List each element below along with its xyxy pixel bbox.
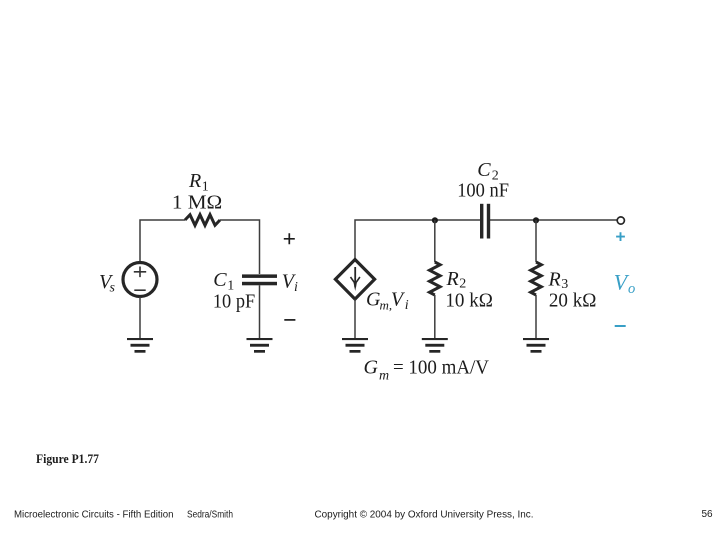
svg-text:10 kΩ: 10 kΩ <box>445 289 493 311</box>
label Vs <box>99 271 116 295</box>
label C1 <box>213 269 234 294</box>
output terminal (open circle) <box>617 217 624 224</box>
svg-text:Sedra/Smith: Sedra/Smith <box>187 510 233 521</box>
svg-text:m: m <box>379 369 389 384</box>
value label 20 kOhm <box>549 289 597 311</box>
svg-text:i: i <box>405 298 409 313</box>
ground below dependent source <box>342 338 368 353</box>
label R3 <box>548 268 569 292</box>
wire bus to R3 <box>535 220 537 262</box>
svg-text:Copyright © 2004 by Oxford Uni: Copyright © 2004 by Oxford University Pr… <box>315 510 534 521</box>
label Gm,Vi <box>366 288 409 313</box>
svg-text:Microelectronic Circuits - Fif: Microelectronic Circuits - Fifth Edition <box>14 510 174 521</box>
svg-text:i: i <box>294 280 298 295</box>
footer book title <box>14 510 174 521</box>
figure caption Figure P1.77 <box>36 452 99 466</box>
svg-text:R: R <box>548 268 561 290</box>
value label 10 pF <box>213 291 255 313</box>
footer authors <box>187 510 233 521</box>
capacitor C2 <box>480 204 490 239</box>
value label 10 kOhm <box>445 289 493 311</box>
label R2 <box>446 268 467 292</box>
svg-text:10 pF: 10 pF <box>213 291 255 313</box>
wire diamond top to bus <box>355 220 480 260</box>
footer page number 56 <box>702 509 714 520</box>
svg-text:Figure P1.77: Figure P1.77 <box>36 452 99 466</box>
dependent source G_m V_i (diamond) <box>335 260 374 300</box>
node Vo minus sign (cyan) <box>615 325 626 327</box>
voltage source Vs <box>123 263 157 297</box>
svg-text:o: o <box>628 281 635 297</box>
node Vi plus sign <box>284 233 295 244</box>
resistor R1 <box>185 215 220 226</box>
resistor R3 <box>531 262 542 295</box>
ground below C1 <box>247 338 273 353</box>
resistor R2 <box>430 262 441 295</box>
wire C1 to ground <box>259 285 261 339</box>
svg-text:s: s <box>110 281 116 296</box>
svg-text:100 nF: 100 nF <box>457 179 509 201</box>
node label Vi <box>282 271 298 296</box>
svg-text:= 100 mA/V: = 100 mA/V <box>393 356 490 378</box>
wire R3 to ground <box>535 295 537 339</box>
ground below R3 <box>523 338 549 353</box>
ground below Vs <box>127 338 153 353</box>
svg-text:R: R <box>188 170 201 192</box>
capacitor C1 <box>242 274 277 285</box>
label R1 <box>188 170 209 194</box>
svg-text:C: C <box>213 269 227 291</box>
wire diamond to ground <box>354 299 356 339</box>
wire R1 to node above C1 <box>220 220 260 274</box>
label C2 <box>477 159 499 183</box>
svg-text:C: C <box>477 159 491 181</box>
wire Vs to ground <box>139 297 141 339</box>
footer copyright <box>315 510 534 521</box>
node Vo plus sign (cyan) <box>616 232 625 241</box>
wire top-left from Vs to R1 <box>140 220 185 261</box>
svg-text:56: 56 <box>702 509 714 520</box>
junction node at R3 <box>533 217 539 223</box>
label Gm = 100 mA/V <box>364 356 490 383</box>
node label Vo (cyan) <box>614 270 635 297</box>
svg-text:R: R <box>446 268 459 290</box>
value label 100 nF <box>457 179 509 201</box>
wire R2 to ground <box>434 295 436 339</box>
ground below R2 <box>422 338 448 353</box>
node Vi minus sign <box>284 319 295 321</box>
svg-text:20 kΩ: 20 kΩ <box>549 289 597 311</box>
wire bus to R2 <box>434 220 436 262</box>
svg-text:G: G <box>364 356 379 378</box>
svg-text:1 MΩ: 1 MΩ <box>172 192 222 214</box>
wire C2 right to output terminal <box>490 219 617 221</box>
junction node at R2 <box>432 217 438 223</box>
value label 1 MOhm <box>172 192 222 214</box>
